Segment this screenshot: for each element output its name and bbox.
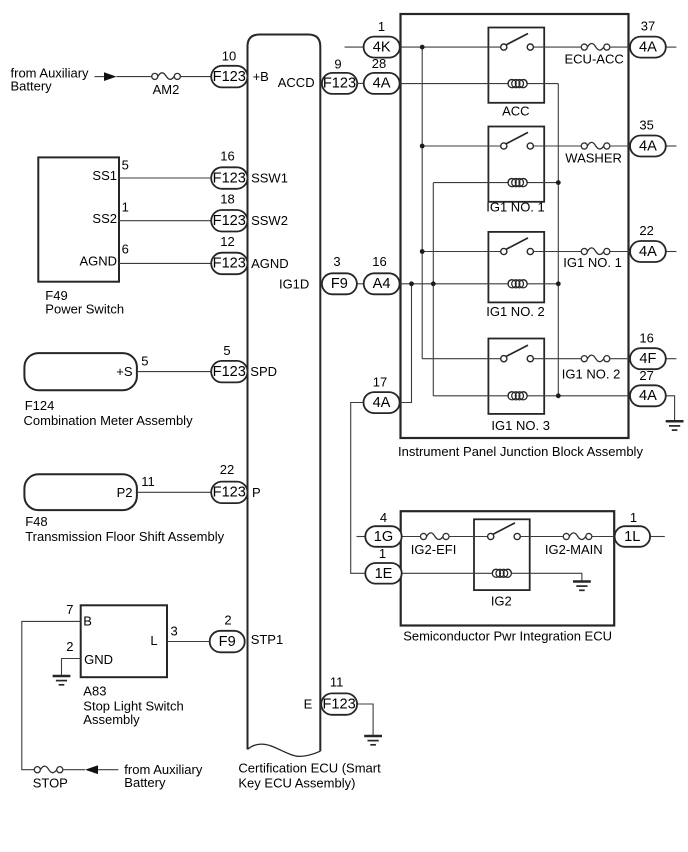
- vertical IG1D to pin17: [400, 284, 412, 403]
- svg-text:22: 22: [220, 462, 234, 477]
- svg-text:F123: F123: [213, 170, 246, 186]
- Instrument Panel Junction Block Assembly box: [401, 14, 629, 438]
- ground E: [364, 736, 382, 745]
- wire STOP fuse to arrow: [63, 769, 85, 771]
- svg-text:5: 5: [141, 354, 148, 369]
- svg-text:Assembly: Assembly: [83, 712, 140, 727]
- arrow tail STOP: [98, 769, 118, 771]
- connector 4A pin28: [364, 73, 400, 94]
- wire from auxiliary battery to AM2: [95, 76, 152, 78]
- stub right of 4F pin16: [666, 358, 677, 360]
- svg-text:E: E: [304, 697, 313, 712]
- fuse STOP: [34, 766, 63, 773]
- connector 4A pin37: [630, 37, 666, 58]
- svg-text:1L: 1L: [624, 529, 640, 545]
- svg-text:4: 4: [380, 510, 387, 525]
- stub right of 1L: [650, 536, 665, 538]
- svg-text:4K: 4K: [373, 39, 391, 55]
- svg-text:+S: +S: [116, 364, 133, 379]
- svg-text:4A: 4A: [639, 39, 657, 55]
- svg-text:SPD: SPD: [250, 364, 277, 379]
- svg-text:AM2: AM2: [153, 82, 180, 97]
- connector F123 pin12: [211, 253, 247, 275]
- power switch F49 box: [38, 157, 119, 281]
- junction dots: [409, 45, 561, 399]
- connector 4F pin16: [630, 348, 666, 369]
- svg-text:SSW1: SSW1: [251, 171, 288, 186]
- connector F123 pin18: [211, 210, 247, 232]
- svg-text:16: 16: [220, 149, 234, 164]
- stub left of 4K: [345, 46, 364, 48]
- svg-text:Key ECU Assembly): Key ECU Assembly): [238, 775, 355, 790]
- svg-text:IG2-MAIN: IG2-MAIN: [545, 542, 603, 557]
- svg-text:ACCD: ACCD: [278, 75, 315, 90]
- switch ACC: [501, 34, 534, 51]
- svg-text:IG1 NO. 1: IG1 NO. 1: [486, 200, 545, 215]
- stub right of 4A pin22: [666, 251, 677, 253]
- wire IG1 NO.1 coil right: [527, 182, 559, 184]
- wire GND of A83: [62, 659, 81, 676]
- svg-text:35: 35: [639, 118, 653, 133]
- svg-text:11: 11: [330, 674, 344, 689]
- coil IG1 NO.2: [508, 280, 527, 288]
- wire ACC coil out to vertical: [527, 83, 559, 85]
- svg-text:Certification ECU (Smart: Certification ECU (Smart: [238, 760, 381, 775]
- svg-text:F123: F123: [322, 696, 355, 712]
- svg-text:28: 28: [372, 56, 386, 71]
- wire pin17 to 1E: [351, 403, 366, 574]
- svg-text:IG1 NO. 3: IG1 NO. 3: [491, 418, 550, 433]
- svg-text:6: 6: [122, 242, 129, 257]
- coil IG1 NO.3: [508, 392, 527, 400]
- svg-text:P2: P2: [117, 485, 133, 500]
- svg-text:Semiconductor Pwr Integration: Semiconductor Pwr Integration ECU: [403, 629, 612, 644]
- wire 1G to fuse IG2-EFI: [402, 536, 421, 538]
- svg-text:5: 5: [122, 158, 129, 173]
- wire fuse WASHER to 4A pin35: [610, 145, 630, 147]
- relay IG1 NO.2 box: [488, 232, 544, 303]
- switch IG1 NO.3: [501, 345, 534, 362]
- wire ACCD 4A into ACC coil: [400, 83, 509, 85]
- connector 4A pin22: [630, 241, 666, 262]
- connector F123 pin5: [211, 361, 247, 383]
- fuse IG2-MAIN: [563, 533, 592, 540]
- wire fuse to 4F pin16: [610, 358, 630, 360]
- svg-text:B: B: [83, 614, 92, 629]
- svg-text:+B: +B: [253, 69, 269, 84]
- svg-text:F123: F123: [213, 69, 246, 85]
- svg-text:4A: 4A: [639, 388, 657, 404]
- connector F123 pin11: [321, 693, 357, 714]
- svg-text:27: 27: [639, 368, 653, 383]
- wire IG1 NO.2 switch to fuse IG1 NO.1: [533, 251, 581, 253]
- arrow to STOP: [85, 765, 98, 774]
- wire IG1 NO.1 switch to fuse WASHER: [533, 145, 581, 147]
- ground pin27: [666, 421, 684, 430]
- svg-text:11: 11: [141, 474, 155, 489]
- connector F9 pin2: [210, 631, 245, 653]
- svg-text:IG1 NO. 2: IG1 NO. 2: [562, 367, 621, 382]
- svg-text:1: 1: [378, 19, 385, 34]
- svg-text:F9: F9: [219, 634, 236, 650]
- svg-text:IG1D: IG1D: [279, 276, 309, 291]
- switch bus vertical: [421, 47, 423, 359]
- svg-text:A83: A83: [83, 683, 106, 698]
- wire L to STP1: [167, 641, 210, 643]
- svg-text:18: 18: [220, 191, 234, 206]
- coil IG2: [492, 569, 511, 577]
- arrow from auxiliary battery: [104, 72, 117, 81]
- ground A83: [53, 676, 71, 685]
- wire SS2: [119, 220, 211, 222]
- wire washer row left: [422, 145, 501, 147]
- wire A4 into IG1 NO.2 coil: [400, 283, 509, 285]
- stop light switch A83 box: [81, 605, 167, 677]
- svg-text:3: 3: [333, 254, 340, 269]
- svg-text:F123: F123: [213, 256, 246, 272]
- svg-text:Combination Meter Assembly: Combination Meter Assembly: [24, 413, 194, 428]
- connector F123 pin10: [211, 66, 247, 88]
- wire IG1 NO.3 switch to fuse IG1 NO.2: [533, 358, 581, 360]
- wire 4K to ACC switch: [400, 46, 501, 48]
- svg-text:A4: A4: [373, 276, 391, 292]
- switch IG1 NO.2: [501, 238, 534, 255]
- wire +S to SPD: [137, 371, 211, 373]
- coil feed vertical IG1: [432, 183, 434, 396]
- connector 1E pin1: [365, 563, 401, 584]
- wire fuse to 4A pin37: [610, 46, 630, 48]
- svg-text:4A: 4A: [373, 395, 391, 411]
- svg-text:16: 16: [639, 330, 653, 345]
- svg-text:37: 37: [641, 19, 655, 34]
- svg-text:1E: 1E: [375, 566, 393, 582]
- relay IG1 NO.1 box: [488, 127, 544, 202]
- connector 1L pin1: [615, 526, 651, 547]
- svg-text:IG1 NO. 1: IG1 NO. 1: [563, 255, 622, 270]
- wire AGND: [119, 262, 211, 264]
- connector 4K pin1: [364, 37, 400, 58]
- svg-text:IG1 NO. 2: IG1 NO. 2: [486, 304, 545, 319]
- svg-text:16: 16: [372, 254, 386, 269]
- svg-text:1: 1: [630, 510, 637, 525]
- wire IG2 coil to ground: [511, 573, 582, 581]
- svg-text:Battery: Battery: [11, 79, 53, 94]
- wire IG1D row F9 to A4: [357, 283, 364, 285]
- wire IG1 NO.3 coil to 4A pin27: [527, 395, 631, 397]
- label Certification ECU: [238, 760, 381, 790]
- wire fuse to 4A pin22: [610, 251, 630, 253]
- stub left of 1G: [357, 536, 366, 538]
- vertical coil-ground bus: [557, 84, 559, 396]
- svg-text:7: 7: [66, 602, 73, 617]
- wire 4A pin27 to ground: [666, 396, 675, 421]
- svg-text:F123: F123: [213, 364, 246, 380]
- svg-text:F123: F123: [323, 76, 356, 92]
- wire AM2 to F123 pin10: [180, 76, 211, 78]
- fuse IG2-EFI: [420, 533, 449, 540]
- svg-text:WASHER: WASHER: [565, 150, 622, 165]
- ECU bottom wavy cut: [248, 744, 321, 756]
- relay ACC box: [488, 28, 544, 103]
- connector F9 pin3: [322, 273, 357, 294]
- svg-text:IG2: IG2: [491, 594, 512, 609]
- svg-text:5: 5: [223, 343, 230, 358]
- svg-text:SS1: SS1: [92, 168, 117, 183]
- svg-text:F9: F9: [331, 276, 348, 292]
- svg-text:P: P: [252, 485, 261, 500]
- connector 1G pin4: [365, 526, 401, 547]
- connector 4A pin35: [630, 136, 666, 157]
- svg-text:9: 9: [334, 56, 341, 71]
- svg-text:Instrument Panel Junction Bloc: Instrument Panel Junction Block Assembly: [398, 444, 643, 459]
- svg-text:ECU-ACC: ECU-ACC: [565, 51, 624, 66]
- svg-text:22: 22: [639, 223, 653, 238]
- switch IG1 NO.1: [501, 132, 534, 149]
- shift assembly F48 box: [24, 474, 136, 510]
- stub right of 4A pin35: [666, 145, 677, 147]
- relay IG1 NO.3 box: [488, 339, 544, 414]
- label A83: [83, 683, 183, 727]
- wire fuse IG2-MAIN to 1L: [592, 536, 615, 538]
- Semiconductor Pwr Integration ECU box: [401, 511, 615, 625]
- label F49: [45, 288, 124, 317]
- svg-text:2: 2: [224, 613, 231, 628]
- svg-text:L: L: [150, 633, 157, 648]
- fuse IG1 NO.1: [581, 248, 610, 255]
- relay IG2 box: [474, 519, 530, 590]
- connector 4A pin17: [364, 392, 400, 413]
- svg-text:4A: 4A: [639, 138, 657, 154]
- wire IG2 switch to fuse IG2-MAIN: [521, 536, 563, 538]
- wire E to ground: [357, 704, 373, 736]
- coil IG1 NO.1: [508, 179, 527, 187]
- svg-text:ACC: ACC: [502, 103, 529, 118]
- fuse AM2: [152, 73, 181, 80]
- ground IG2: [573, 582, 591, 591]
- svg-text:3: 3: [171, 624, 178, 639]
- svg-text:F124: F124: [25, 398, 55, 413]
- wire IG1 NO.2 coil right: [527, 283, 559, 285]
- svg-text:1: 1: [122, 200, 129, 215]
- svg-text:F123: F123: [213, 485, 246, 501]
- switch IG2: [488, 523, 521, 540]
- wire IG1 NO.1 coil left: [433, 182, 509, 184]
- connector F123 pin16: [211, 167, 247, 189]
- svg-text:Battery: Battery: [124, 775, 166, 790]
- wire 1E to IG2 coil: [402, 572, 493, 574]
- svg-text:Transmission Floor Shift Assem: Transmission Floor Shift Assembly: [25, 529, 224, 544]
- fuse ECU-ACC: [581, 43, 610, 50]
- fuse IG1 NO.2: [581, 355, 610, 362]
- connector A4 pin16: [364, 273, 400, 294]
- label from auxiliary battery top: [11, 66, 90, 94]
- svg-text:4A: 4A: [373, 76, 391, 92]
- wire SS1: [119, 177, 211, 179]
- coil ACC: [508, 80, 527, 88]
- wire ACCD row F123 to 4A: [357, 82, 364, 84]
- svg-text:AGND: AGND: [79, 254, 117, 269]
- svg-text:17: 17: [373, 374, 387, 389]
- svg-text:STP1: STP1: [251, 632, 284, 647]
- wire IG1NO2 output row left: [422, 358, 501, 360]
- svg-text:1: 1: [379, 546, 386, 561]
- svg-text:4F: 4F: [639, 351, 656, 367]
- combination meter F124 box: [24, 353, 136, 390]
- wire IG1 NO.3 coil left: [433, 395, 509, 397]
- svg-text:12: 12: [220, 234, 234, 249]
- svg-text:Power Switch: Power Switch: [45, 302, 124, 317]
- svg-text:10: 10: [222, 48, 236, 63]
- wire B to STOP fuse: [22, 621, 81, 769]
- svg-text:1G: 1G: [374, 529, 393, 545]
- label F124: [24, 398, 194, 428]
- svg-text:F48: F48: [25, 514, 47, 529]
- svg-text:SSW2: SSW2: [251, 213, 288, 228]
- ECU U1 Certification ECU body: [248, 35, 321, 752]
- svg-text:GND: GND: [84, 652, 113, 667]
- connector F123 pin22: [211, 482, 247, 504]
- connector F123 pin9: [322, 73, 357, 94]
- svg-text:AGND: AGND: [251, 256, 289, 271]
- svg-text:STOP: STOP: [33, 776, 68, 791]
- label from auxiliary battery bottom: [124, 762, 203, 790]
- connector 4A pin27: [630, 385, 666, 406]
- fuse WASHER: [581, 142, 610, 149]
- svg-text:SS2: SS2: [92, 211, 117, 226]
- svg-text:IG2-EFI: IG2-EFI: [411, 542, 457, 557]
- svg-text:2: 2: [66, 639, 73, 654]
- wire IG1NO1 output row left: [422, 251, 501, 253]
- wire fuse to IG2 switch: [449, 536, 488, 538]
- label F48: [25, 514, 224, 544]
- stub right of 4A pin37: [666, 46, 677, 48]
- wire ACC switch to fuse ECU-ACC: [533, 46, 581, 48]
- svg-text:F123: F123: [213, 213, 246, 229]
- wire P2 to P: [137, 491, 211, 493]
- svg-text:4A: 4A: [639, 244, 657, 260]
